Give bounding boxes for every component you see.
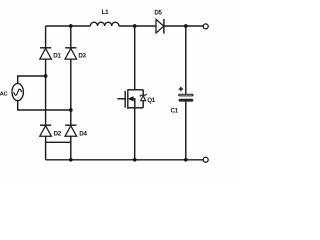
wire right branch upper (top rail to D3) (70, 26, 72, 48)
node junction bottom rail / Q1 source (133, 158, 137, 162)
transistor Q1 (N-MOSFET with body diode) (117, 89, 146, 109)
diode D5 (156, 19, 164, 33)
wire Q1 drain (top rail down) (134, 26, 136, 90)
wire Q1 source (down to bottom rail) (134, 108, 136, 160)
wire top rail left segment (46, 25, 91, 27)
wire C1 bottom lead (185, 102, 187, 160)
svg-text:Q1: Q1 (147, 97, 156, 104)
diode D4 (65, 125, 77, 136)
wire top rail right segment (164, 25, 203, 27)
svg-text:C1: C1 (171, 107, 179, 114)
AC source V1 (12, 83, 23, 100)
capacitor C1 (179, 94, 193, 101)
node junction top rail / C1 (184, 24, 188, 28)
node junction left branch / AC top (44, 74, 48, 78)
node junction bottom rail / C1 (184, 158, 188, 162)
svg-text:D4: D4 (79, 130, 87, 137)
diode D2 (40, 125, 52, 136)
node junction top rail / D3 branch (69, 24, 73, 28)
wire AC top lead (18, 76, 46, 83)
wire AC bottom lead (18, 101, 71, 110)
svg-text:D5: D5 (154, 9, 162, 16)
wire left branch lower (D2 to bottom rail) (45, 136, 47, 160)
wire right branch middle (D3 to D4) (70, 59, 72, 125)
svg-text:AC: AC (0, 92, 8, 98)
wire right branch lower (D4 to bottom rail) (70, 136, 72, 160)
wire C1 top lead (185, 26, 187, 94)
svg-text:L1: L1 (102, 9, 109, 16)
output terminal top (open circle) (203, 24, 208, 29)
diode D3 (65, 48, 77, 59)
inductor L1 (90, 22, 118, 26)
node junction top rail / Q1 drain (133, 24, 137, 28)
node junction bottom rail / D4 branch (69, 158, 73, 162)
diode D1 (40, 48, 52, 59)
polarity plus sign (179, 87, 183, 91)
svg-text:D1: D1 (53, 53, 61, 60)
wire left branch middle (D1 to D2) (45, 59, 47, 125)
output terminal bottom (open circle) (203, 157, 208, 162)
node junction right branch / AC bottom (69, 108, 73, 112)
wire top rail middle segment (119, 25, 156, 27)
wire bridge bottom connector (46, 141, 71, 143)
svg-text:D2: D2 (54, 130, 62, 137)
wire bottom rail (46, 159, 204, 161)
wire left branch upper (top rail to D1) (45, 26, 47, 48)
svg-text:D3: D3 (78, 53, 86, 60)
